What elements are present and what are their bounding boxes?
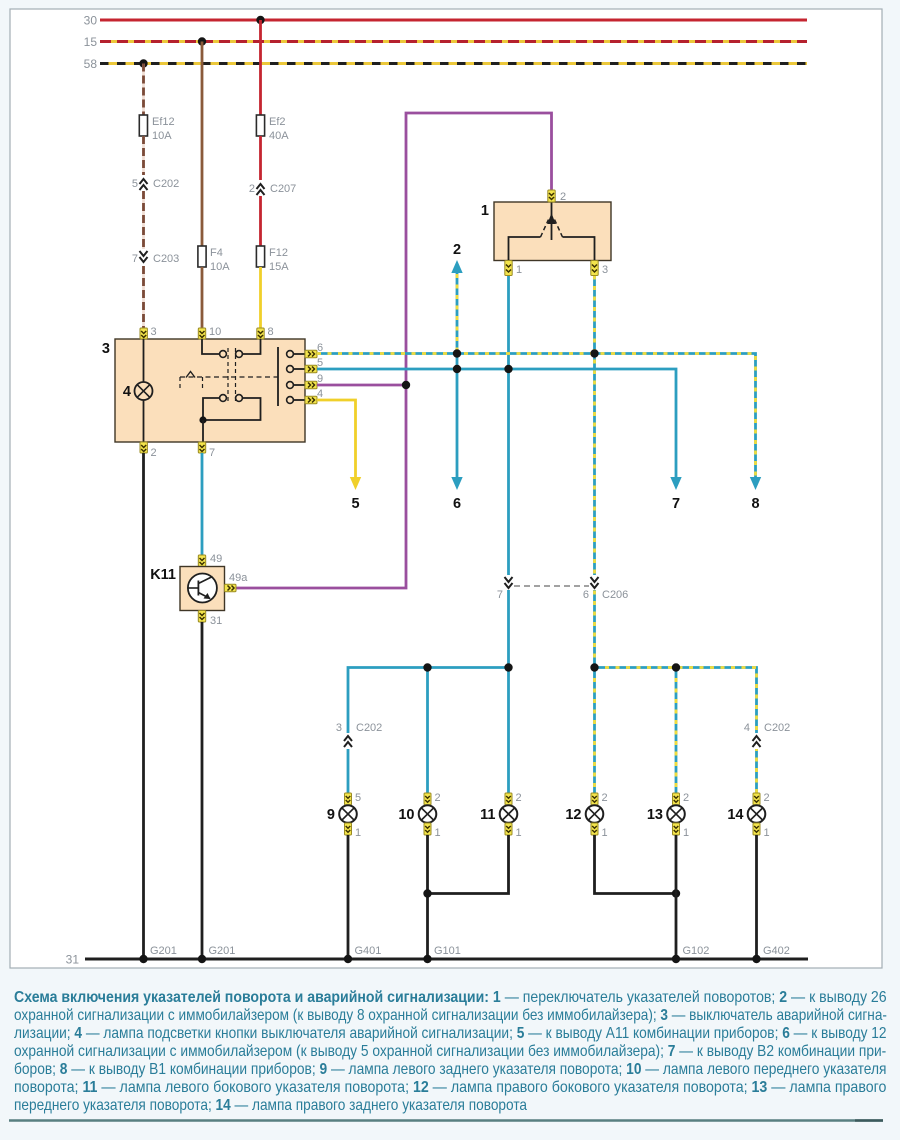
svg-text:3: 3 [602,264,608,276]
node: junction arrow2 wire on line 6 [453,349,461,357]
connector C203 pin 7 [132,249,179,266]
ground G201 (switch 3) [139,945,177,963]
node: tap of Ef2 wire on bus 30 [256,16,264,24]
arrow 5: yellow wire to instrument cluster A11 [350,477,361,512]
hazard switch 3 body [102,339,305,442]
bus 58 [84,57,807,71]
relay K11 pin 31 connector [198,611,222,628]
svg-text:49a: 49a [229,572,248,584]
wire: blue stub linking line 6 and line 5 at x 457 [456,354,459,370]
pin 4 connector of switch 3 [305,388,323,404]
svg-text:1: 1 [481,203,489,219]
ground G201 (relay K11) [198,945,236,963]
pin 10 connector of switch 3 [198,326,221,339]
lamp 13 top pin connector [673,792,690,805]
switch 3 output contact pin 4 [287,397,305,404]
node: junction lamp 10 feed [423,663,431,671]
svg-text:6: 6 [453,496,461,512]
bus 30 [84,14,807,28]
lamp 11 bottom pin connector [505,823,522,839]
svg-text:5: 5 [317,357,323,369]
svg-text:1: 1 [355,827,361,839]
svg-text:10A: 10A [152,130,172,142]
svg-text:1: 1 [516,264,522,276]
relay K11 pin 49 connector [198,553,222,567]
svg-text:11: 11 [480,807,495,823]
svg-text:15A: 15A [269,261,289,273]
node: tap of F4 wire on bus 15 [198,37,206,45]
node: junction switch1 pin3 wire on line 6 [590,349,598,357]
svg-text:10A: 10A [210,261,230,273]
pin 3 connector of switch 1 [591,261,608,277]
wire: blue from switch 1 pin 1 down to lamp 11 [507,276,510,668]
arrow 7: blue wire to instrument cluster B2 [670,477,681,512]
node: tap of Ef12 wire on bus 58 [139,59,147,67]
ground G402 [752,945,790,963]
bus 15 [84,35,807,49]
lamp 11 bulb [480,805,517,823]
svg-text:F12: F12 [269,247,288,259]
node: junction lamp 12 ground on lamp 13 wire [672,889,680,897]
svg-text:2: 2 [435,792,441,804]
lamp 10 bottom pin connector [424,823,441,839]
pin 3 connector of switch 3 [140,326,157,339]
lamp 14 top pin connector [753,792,770,805]
svg-text:G401: G401 [355,945,382,957]
svg-text:10: 10 [398,807,414,823]
svg-text:58: 58 [84,57,98,71]
svg-text:4: 4 [744,722,750,734]
wire: brown/white dashed from C203 to switch pin 3 [142,266,145,328]
fuse F4 10A [198,246,230,273]
ground G101 [423,945,461,963]
svg-text:K11: K11 [150,567,176,583]
connector C207 pin 2 [249,180,296,196]
wire: black ground lamp 9 [347,835,350,959]
svg-text:30: 30 [84,14,98,28]
svg-text:G201: G201 [150,945,177,957]
node: junction right feed on switch1 pin3 wire [590,663,598,671]
svg-text:C202: C202 [356,722,382,734]
arrow 6: blue wire to alarm unit [451,369,462,512]
wire: blue/yellow line from switch 3 pin 6 to arrow 8 [317,354,756,480]
svg-text:2: 2 [683,792,689,804]
pin 7 connector of switch 3 [198,442,215,459]
wire: brown/white dashed from bus 58 to fuse Ef12 [142,64,145,116]
switch 3 moving-contact dashed links [228,348,236,404]
svg-text:5: 5 [132,178,138,190]
svg-text:4: 4 [317,388,323,400]
switch 3 push-button mechanism dashed link [180,372,278,392]
arrow 8: to instrument cluster B1 [750,477,761,512]
pin 8 connector of switch 3 [257,326,274,339]
connector C202 pin 5 [132,175,179,191]
wire: blue/yellow from switch 1 pin 3 down to lamp 12 [593,276,596,668]
fuse F12 15A [256,246,289,273]
svg-text:1: 1 [435,827,441,839]
wire: brown from fuse F4 to switch pin 10 [201,267,204,328]
wire: blue from switch 3 pin 7 to relay K11 pin 49 [201,453,204,556]
svg-text:2: 2 [602,792,608,804]
svg-text:C202: C202 [764,722,790,734]
connector C206 pin 6 [583,575,628,601]
pin 1 connector of switch 1 [505,261,522,277]
wire: brown/white dashed from C202 to C203 [142,191,145,250]
lamp 10 bulb [398,805,436,823]
wire: purple from switch 3 pin 9 [317,384,406,387]
svg-text:2: 2 [453,242,461,258]
svg-text:31: 31 [210,615,222,627]
lamp 11 top pin connector [505,792,522,805]
connector C202 pin 3 on lamp 9 wire [336,722,382,749]
switch 3 lower contact pair (to pin 7) [199,395,260,442]
turn-signal switch 1 body [481,202,611,261]
wire: red from fuse Ef2 to connector C207 [259,136,262,181]
wire: purple net from switch 1 pin 2 to relay K11 pin 49a [236,113,552,588]
svg-text:7: 7 [209,447,215,459]
wire: red from C207 to fuse F12 [259,196,262,246]
svg-text:2: 2 [764,792,770,804]
relay K11 body [150,567,224,611]
illumination lamp 4 inside switch 3 [123,339,153,442]
svg-text:3: 3 [151,326,157,338]
wire: black ground lamp 11 joining lamp 10 [428,835,509,894]
node: junction lamp feed on C206 wire [504,663,512,671]
svg-text:15: 15 [84,35,98,49]
switch 3 upper contact pair (pins 10-8) [202,339,261,357]
relay K11 pin 49a connector [225,572,249,592]
svg-text:7: 7 [672,496,680,512]
bus 31 ground rail [66,953,808,967]
dashed link of connector C206 [514,585,589,587]
wire: black ground lamp 14 [755,835,758,959]
svg-text:G102: G102 [683,945,710,957]
lamp 12 bottom pin connector [591,823,608,839]
svg-text:1: 1 [683,827,689,839]
wire: black ground from switch 3 pin 2 [142,453,145,959]
wire: blue/yellow feed line for right lamps [595,668,757,794]
relay K11 flasher symbol [188,574,217,603]
lamp 9 bulb [327,805,357,823]
wire: black ground from relay K11 pin 31 [201,622,204,959]
fuse Ef12 10A [139,115,174,142]
svg-text:2: 2 [516,792,522,804]
svg-text:9: 9 [317,373,323,385]
connector C202 pin 4 on lamp 14 wire [744,722,790,749]
lamp 14 bulb [727,805,765,823]
svg-text:G101: G101 [434,945,461,957]
switch 3 output contact pin 9 [287,382,305,389]
svg-text:1: 1 [764,827,770,839]
wire: blue feed line for left lamps [348,668,509,794]
svg-text:10: 10 [209,326,221,338]
lamp 9 top pin connector [345,792,362,805]
pin 2 connector of switch 3 [140,442,157,459]
svg-text:Ef12: Ef12 [152,116,175,128]
wire: blue line from switch 3 pin 5 to arrow 7 [317,369,676,479]
svg-text:G402: G402 [763,945,790,957]
lamp 10 top pin connector [424,792,441,805]
lamp 12 top pin connector [591,792,608,805]
pin 5 connector of switch 3 [305,357,323,373]
lamp 12 bulb [565,805,603,823]
svg-text:8: 8 [268,326,274,338]
switch 3 common bar for output contacts [277,347,279,406]
svg-text:1: 1 [516,827,522,839]
switch 1 lever symbol [509,202,595,261]
wire: yellow from fuse F12 to switch pin 8 [259,267,262,328]
pin 9 connector of switch 3 [305,373,323,389]
pin 2 connector of switch 1 [548,190,566,203]
switch 3 output contact pin 6 [287,351,305,358]
svg-text:2: 2 [560,191,566,203]
svg-text:14: 14 [727,807,743,823]
node: junction arrow6 wire on line 5 [453,365,461,373]
node: purple junction at pin 9 branch [402,381,410,389]
svg-text:C206: C206 [602,589,628,601]
svg-text:C207: C207 [270,183,296,195]
node: junction lamp 11 ground on lamp 10 wire [423,889,431,897]
arrow 2: blue/yellow wire to alarm unit [451,242,462,354]
svg-text:31: 31 [66,953,80,967]
svg-text:C202: C202 [153,178,179,190]
svg-text:1: 1 [602,827,608,839]
svg-text:7: 7 [132,253,138,265]
svg-text:49: 49 [210,553,222,565]
fuse Ef2 40A [256,115,289,142]
lamp 9 bottom pin connector [345,823,362,839]
svg-text:8: 8 [751,496,759,512]
ground G401 [344,945,382,963]
svg-text:C203: C203 [153,253,179,265]
lamp 13 bottom pin connector [673,823,690,839]
switch 3 output contact pin 5 [287,366,305,373]
wire: black ground lamp 10 [426,835,429,959]
svg-text:2: 2 [249,183,255,195]
svg-text:5: 5 [355,792,361,804]
svg-text:3: 3 [336,722,342,734]
svg-text:G201: G201 [209,945,236,957]
svg-text:7: 7 [497,589,503,601]
ground G102 [672,945,710,963]
node: junction switch1 pin1 wire on line 5 [504,365,512,373]
svg-text:9: 9 [327,807,335,823]
wire: brown/white dashed from fuse Ef12 to connector C202 [142,136,145,176]
lamp 14 bottom pin connector [753,823,770,839]
svg-text:F4: F4 [210,247,223,259]
svg-text:Ef2: Ef2 [269,116,286,128]
wire: yellow from switch 3 pin 4 to arrow 5 [317,400,356,479]
node: junction lamp 13 feed [672,663,680,671]
svg-text:40A: 40A [269,130,289,142]
svg-text:12: 12 [565,807,581,823]
wire: brown from bus 15 to fuse F4 [201,42,204,247]
svg-text:2: 2 [151,447,157,459]
pin 6 connector of switch 3 [305,342,323,358]
svg-text:4: 4 [123,384,131,400]
svg-text:3: 3 [102,341,110,357]
svg-text:5: 5 [351,496,359,512]
wire: black ground lamp 13 [675,835,678,959]
wire: red from bus 30 to fuse Ef2 [259,20,262,115]
svg-text:13: 13 [647,807,663,823]
lamp 13 bulb [647,805,685,823]
svg-text:6: 6 [583,589,589,601]
connector C206 pin 7 [497,575,514,601]
wire: black ground lamp 12 joining lamp 13 [595,835,677,894]
